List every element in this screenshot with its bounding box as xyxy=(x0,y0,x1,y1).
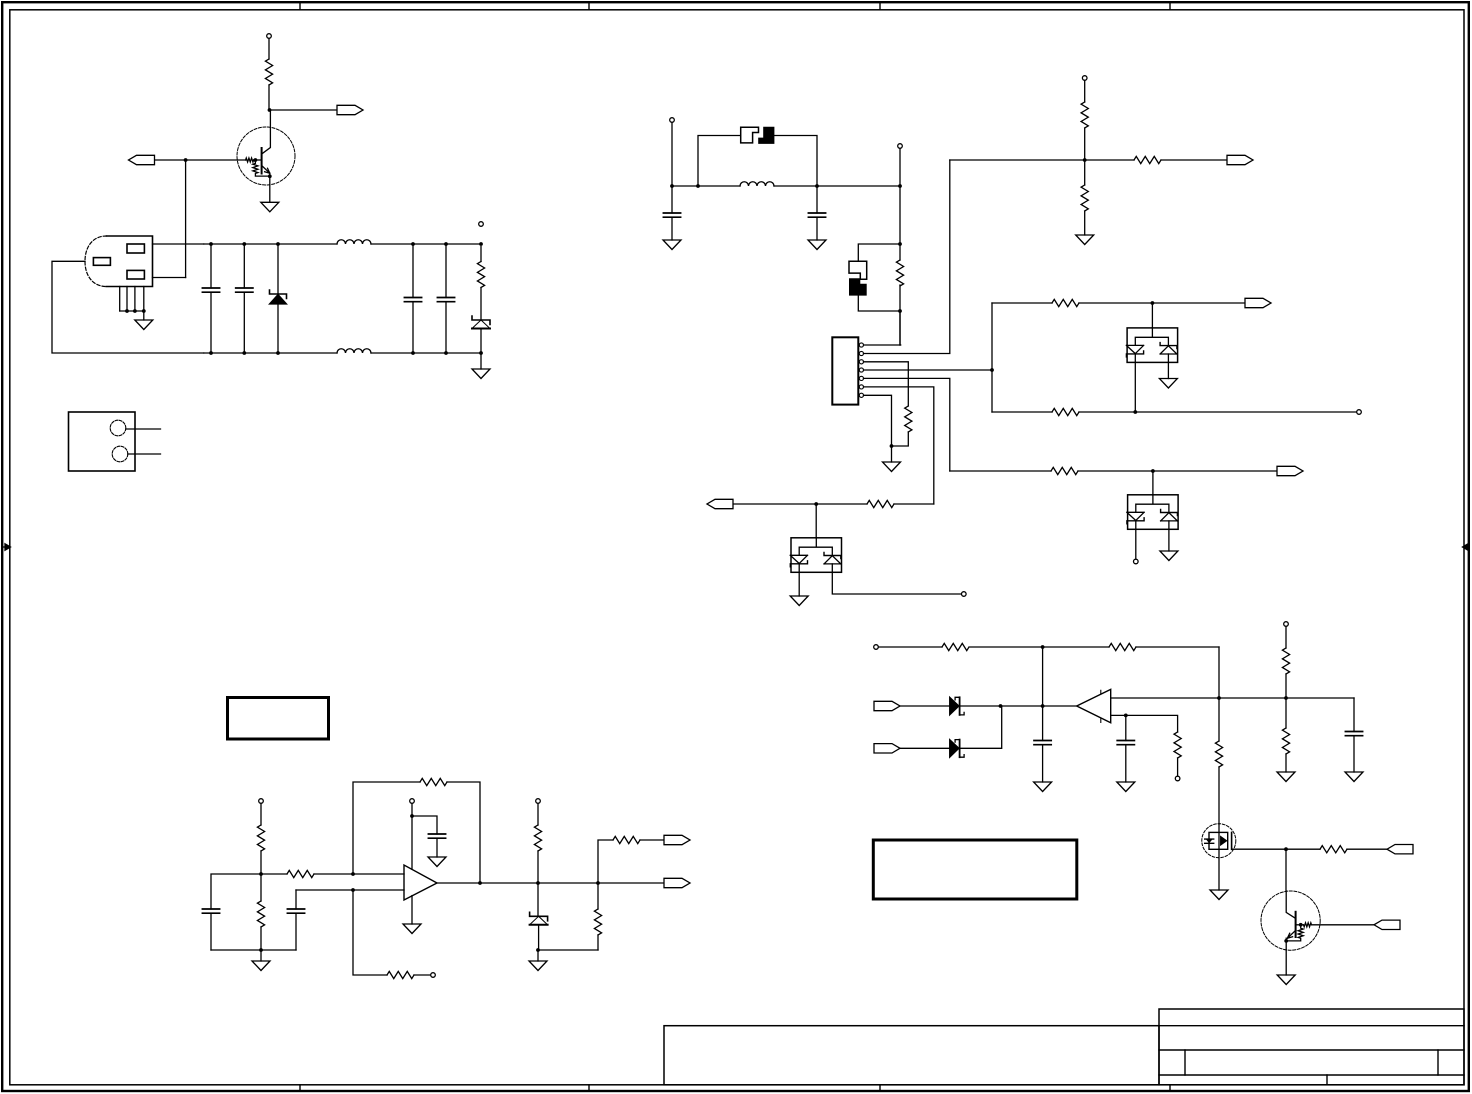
wire io line y504 xyxy=(733,503,934,505)
ground (C5) xyxy=(663,240,681,250)
wire rail branch down xyxy=(1042,647,1044,741)
wire base line xyxy=(155,159,246,161)
ground (clamp) xyxy=(537,950,539,961)
resistor (divider top right) xyxy=(1081,81,1088,161)
ground (output filter) xyxy=(1034,782,1052,792)
resistor (series upper out) xyxy=(613,836,664,843)
junction diode-or xyxy=(999,704,1003,708)
capacitor C5 xyxy=(663,186,680,240)
ground (C6) xyxy=(808,240,826,250)
wire output xyxy=(437,882,664,884)
title block xyxy=(664,1009,1464,1085)
junction JP2 top xyxy=(898,242,902,246)
junction tvs y471 xyxy=(1151,469,1155,473)
resistor (io y412) xyxy=(1052,408,1079,415)
zener diode D2 xyxy=(472,316,490,329)
dual TVS U3 xyxy=(1127,495,1178,530)
wire J1 stub top xyxy=(153,243,204,245)
wire io line y303 xyxy=(992,302,1245,304)
ground (J1 shield) xyxy=(135,320,153,330)
resistor (divider bottom right) xyxy=(1081,160,1088,235)
resistor (threshold set) xyxy=(1174,732,1181,776)
ground (-input filter) xyxy=(1117,782,1135,792)
junction J1 pins xyxy=(125,309,129,313)
wire D4 out xyxy=(960,706,1002,748)
wire tvs U3 pin xyxy=(1152,471,1154,495)
TVS diode D1 (filled zener) xyxy=(270,244,287,353)
resistor (output load) xyxy=(594,883,601,950)
wire U4 left pin down xyxy=(798,572,800,596)
ground (Q2 source) xyxy=(1210,890,1228,900)
wire +input y698 xyxy=(1111,697,1354,699)
connector (input A) xyxy=(874,701,900,710)
junction gate node xyxy=(1284,847,1288,851)
connector (upper out) xyxy=(664,835,690,844)
ground (U3) xyxy=(1160,551,1178,561)
wire filter top rail xyxy=(204,243,481,245)
dual TVS U2 xyxy=(1126,328,1177,363)
box (note area 2) xyxy=(873,840,1077,899)
wire J1 stub lower xyxy=(153,277,186,279)
capacitor (output filter) xyxy=(1034,741,1051,783)
capacitor C4 xyxy=(437,244,454,353)
wire tvs U2 pin xyxy=(1151,303,1153,328)
connector (io y303) xyxy=(1245,298,1271,307)
wire U3 left pin down xyxy=(1135,529,1137,559)
power connector J1 xyxy=(85,236,153,320)
connector (Q3 base in) xyxy=(1374,920,1400,929)
wire input A xyxy=(900,705,950,707)
terminal (sense out) xyxy=(431,973,436,978)
junction output node xyxy=(1041,704,1045,708)
ground (U1) xyxy=(891,446,893,462)
wire J1 left loop xyxy=(52,261,204,353)
resistor (gate series) xyxy=(1215,741,1222,824)
connector in (base, left) xyxy=(129,155,155,164)
resistor (Q1 collector pull-up) xyxy=(265,39,272,111)
resistor (divider upper) xyxy=(257,804,264,875)
ground (ref) xyxy=(1277,772,1295,782)
op-amp power top xyxy=(412,804,437,870)
wire gate to Q3 xyxy=(1285,849,1287,891)
junction output a xyxy=(536,881,540,885)
inductor L1 xyxy=(337,240,371,244)
capacitor (mid filter) xyxy=(287,890,304,950)
wire collector to connector xyxy=(269,109,337,111)
solder jumper JP2 (filled pad) xyxy=(849,278,867,295)
junction tvs y504 xyxy=(814,502,818,506)
inductor L3 xyxy=(740,182,774,186)
wire io line y471 xyxy=(950,470,1277,472)
resistor (series y160) xyxy=(1134,156,1227,163)
junction loop right xyxy=(815,184,819,188)
junction pin4 xyxy=(990,368,994,372)
terminal (divider top) xyxy=(259,799,264,804)
U1 pin 6 xyxy=(859,385,933,504)
terminal (aux in) xyxy=(898,144,903,149)
transistor Q1 (digital NPN, top-left) xyxy=(237,110,295,202)
MOSFET Q2 xyxy=(1202,824,1236,890)
terminal (ref top) xyxy=(1284,622,1289,627)
wire jumper loop xyxy=(698,136,817,187)
ground (divider right) xyxy=(1076,235,1094,245)
resistor (input series) xyxy=(261,870,353,877)
junction power in xyxy=(670,184,674,188)
comparator U5 xyxy=(1077,689,1111,722)
U1 pin 7 xyxy=(859,393,891,446)
U1 pin 2 xyxy=(859,160,949,356)
ground (opamp) xyxy=(403,924,421,934)
resistor (divider lower) xyxy=(257,874,264,950)
junction output b xyxy=(596,881,600,885)
ground (U2) xyxy=(1159,379,1177,389)
junction feedback/output xyxy=(478,881,482,885)
junction main rail end xyxy=(898,184,902,188)
connector out (top-left) xyxy=(337,105,363,114)
junction bottom rail xyxy=(259,948,263,952)
resistor (ref upper) xyxy=(1282,627,1289,699)
connector (gate drive in) xyxy=(1387,845,1413,854)
junction base Q3 xyxy=(1299,923,1303,927)
wire U2 left pin down xyxy=(1134,362,1136,412)
terminal (rail top) xyxy=(1082,76,1087,81)
terminal (filter output) xyxy=(479,222,484,227)
wire U2 right pin down xyxy=(1167,362,1169,378)
wire power in xyxy=(671,123,673,187)
resistor (bleeder) xyxy=(477,247,484,321)
junction base wire xyxy=(184,158,188,162)
connector (io y471) xyxy=(1277,466,1303,475)
transistor Q3 (digital NPN, bottom-right) xyxy=(1261,891,1320,975)
ground (filter) xyxy=(480,353,482,369)
resistor (feedback) xyxy=(420,778,480,883)
junction collector node xyxy=(268,108,272,112)
terminal (pullup top) xyxy=(536,799,541,804)
ground (ref filter) xyxy=(1345,772,1363,782)
junction tvs y412 xyxy=(1133,410,1137,414)
wire io line y412 xyxy=(992,411,1357,413)
IC U1 xyxy=(832,337,858,404)
junction rail/divider xyxy=(1083,158,1087,162)
zener diode (output clamp) xyxy=(530,883,548,950)
wire tvs U4 pin xyxy=(815,504,817,538)
wire +input xyxy=(353,873,404,875)
U1 pin 5 xyxy=(859,376,949,471)
wire vertical to power connector xyxy=(185,160,187,278)
resistor (io y504) xyxy=(867,500,894,507)
resistor (gate in) xyxy=(1286,846,1387,853)
junction loop left xyxy=(696,184,700,188)
wire U3 right pin down xyxy=(1168,529,1170,551)
wire input B xyxy=(900,747,950,749)
junction -input xyxy=(1124,714,1128,718)
junction divider xyxy=(259,872,263,876)
ground (Q1 emitter) xyxy=(261,202,279,212)
wire branch to upper connector xyxy=(598,840,613,883)
junction +input x1219 xyxy=(1217,696,1221,700)
junction emitter Q1 xyxy=(268,174,272,178)
terminal (threshold) xyxy=(1175,776,1180,781)
diode D4 (schottky) xyxy=(950,740,964,758)
op-amp U6 xyxy=(404,865,437,900)
capacitor C2 xyxy=(236,244,253,353)
wire D3 out xyxy=(960,705,1077,707)
wire -input branch xyxy=(1111,714,1126,716)
junction emitter Q3 xyxy=(1284,939,1288,943)
diode D3 (schottky) xyxy=(950,697,964,715)
junction pin7/pin3 xyxy=(890,444,894,448)
U1 pin 1 xyxy=(859,343,900,347)
solder jumper JP2 (open pad) xyxy=(849,261,867,279)
resistor (io y471) xyxy=(1051,467,1078,474)
U1 pin 3 xyxy=(859,360,908,406)
capacitor C3 xyxy=(404,244,421,353)
wire -input sense branch xyxy=(353,890,387,975)
op-amp power bottom xyxy=(411,896,413,924)
wire Q3 base xyxy=(1312,924,1375,926)
junction -input xyxy=(351,888,355,892)
connector (y160 out) xyxy=(1227,155,1253,164)
terminal (io y412) xyxy=(1357,410,1362,415)
wire filter bottom rail xyxy=(204,352,481,354)
terminal (U3) xyxy=(1134,559,1139,564)
resistor (output pullup) xyxy=(534,804,541,884)
connector (io y504, left) xyxy=(707,499,733,508)
resistor (pin3 load) xyxy=(892,406,912,446)
wire top rail y647 xyxy=(878,646,1219,648)
junction JP2 bottom xyxy=(898,309,902,313)
dual TVS U4 xyxy=(790,538,841,573)
junction +input x1286 xyxy=(1284,696,1288,700)
connector J2 (2-pin jack) xyxy=(69,412,161,471)
wire clamp bottom xyxy=(538,949,598,951)
terminal (U4 out) xyxy=(962,592,967,597)
resistor (rail b) xyxy=(1109,643,1136,650)
capacitor (-input filter) xyxy=(1117,715,1134,782)
connector (lower out) xyxy=(664,878,690,887)
wire U4 right pin down xyxy=(832,572,961,594)
ground (U4) xyxy=(790,596,808,606)
capacitor (ref filter) xyxy=(1345,698,1362,772)
wire main rail xyxy=(672,185,900,187)
terminal (power in, top middle) xyxy=(670,118,675,123)
wire left branch xyxy=(211,874,261,909)
wire pin4 bus vertical xyxy=(991,303,993,412)
wire bottom rail xyxy=(211,949,296,951)
wire Q2 gate xyxy=(1232,848,1286,850)
capacitor (opamp decouple) xyxy=(428,834,445,857)
junction +input xyxy=(351,872,355,876)
resistor (ref lower) xyxy=(1282,698,1289,772)
wire main vertical xyxy=(899,186,901,345)
wire JP2 branch xyxy=(858,244,900,311)
inductor L2 xyxy=(337,349,371,353)
ground (decouple) xyxy=(428,857,446,867)
capacitor C6 xyxy=(808,186,825,240)
ground (Q3 emitter) xyxy=(1277,975,1295,985)
junction clamp bottom xyxy=(536,948,540,952)
connector (input B) xyxy=(874,744,900,753)
ground (divider) xyxy=(260,950,262,961)
feedback loop wire xyxy=(353,782,420,874)
resistor (io y303) xyxy=(1052,299,1079,306)
terminal (pull-up top) xyxy=(267,34,272,39)
wire rail corner down xyxy=(1218,647,1220,741)
resistor (sense) xyxy=(387,971,431,978)
capacitor C1 xyxy=(202,244,219,353)
junction tvs y303 xyxy=(1151,301,1155,305)
wire -input xyxy=(296,889,404,891)
resistor (rail a) xyxy=(942,643,969,650)
box (note area 1) xyxy=(228,698,329,740)
wire -input to resistor xyxy=(1126,715,1178,732)
junction rail y647 xyxy=(1041,645,1045,649)
resistor (parallel with JP2) xyxy=(896,260,903,286)
capacitor (left filter) xyxy=(202,909,219,950)
wire rail y160 xyxy=(950,159,1134,161)
U1 pin 4 xyxy=(859,368,992,372)
solder jumper JP1 (filled pad) xyxy=(758,127,774,144)
junction base Q1 xyxy=(254,158,258,162)
terminal (comparator supply) xyxy=(874,645,879,650)
solder jumper JP1 (open pad) xyxy=(741,127,759,143)
